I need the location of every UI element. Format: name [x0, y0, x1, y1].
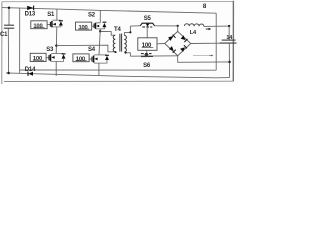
switch S6 — [130, 50, 177, 69]
capacitor C1 — [4, 25, 14, 28]
wire S4 drain lead — [94, 54, 99, 56]
svg-text:100: 100 — [76, 57, 85, 63]
T4 core — [119, 34, 121, 52]
wire bridge right to cap — [191, 42, 220, 44]
bridge diode bottom-right — [180, 45, 187, 52]
wire enclosure bottom edge — [20, 69, 216, 71]
diode S3 body — [51, 54, 65, 62]
transformer T4 — [113, 27, 126, 52]
T4 primary winding — [113, 35, 115, 52]
bridge diode bottom-left — [169, 46, 176, 53]
wire secondary top lead — [124, 26, 130, 35]
svg-text:100: 100 — [33, 56, 42, 62]
wire gate S4 — [89, 58, 91, 60]
svg-text:L4: L4 — [190, 30, 197, 36]
wire S4 source to bottom bus — [98, 63, 100, 76]
inductor L4 — [184, 24, 204, 27]
mosfet S3 — [49, 54, 51, 61]
diode S1 body — [53, 20, 63, 27]
wire S5 gate down to box — [146, 27, 148, 38]
svg-text:D13: D13 — [25, 11, 36, 17]
diode S2 body — [96, 22, 106, 29]
wire S5 to bridge — [155, 25, 178, 27]
junction dot top-left — [8, 7, 11, 10]
junction dot secondary top corner — [129, 31, 131, 33]
diode D13 — [25, 6, 36, 18]
arrow current lower right — [211, 55, 214, 57]
wire enclosure right edge — [215, 13, 217, 70]
wire gate S3 — [46, 57, 49, 59]
T4 secondary winding — [124, 35, 126, 52]
arrow current output top — [206, 28, 212, 30]
gate box 100 S2 — [76, 22, 92, 30]
bridge diode top-right — [181, 35, 188, 42]
wire enclosure left edge — [19, 8, 21, 74]
svg-text:S2: S2 — [88, 12, 96, 18]
wire bridge top stub — [177, 26, 179, 32]
wire node A vertical — [55, 27, 58, 54]
wire gate S1 — [47, 24, 50, 26]
junction dot secondary bottom — [125, 52, 127, 54]
svg-text:100: 100 — [33, 24, 42, 30]
svg-text:S3: S3 — [46, 47, 54, 53]
switch S5 — [130, 16, 177, 38]
svg-text:D14: D14 — [25, 67, 36, 73]
wire output rail lower — [228, 43, 230, 78]
wire S1 drain to bus — [53, 9, 57, 20]
wire top bus — [2, 8, 216, 14]
junction dot node B — [99, 30, 101, 32]
switch cell S2 — [76, 10, 107, 54]
bridge rectifier diamond — [165, 31, 191, 55]
svg-text:C1: C1 — [0, 32, 8, 38]
wire S3 drain lead — [51, 53, 56, 55]
gate box 100 S3 — [30, 53, 46, 61]
svg-text:100: 100 — [142, 43, 152, 49]
gate box 100 S4 — [73, 54, 89, 62]
outer border left — [1, 2, 3, 84]
junction dot bridge top — [177, 25, 179, 27]
junction dot bottom-left — [7, 72, 10, 75]
bridge diode top-left — [168, 35, 175, 41]
junction dot output bottom — [228, 61, 231, 64]
wire primary bottom lead — [56, 45, 115, 52]
switch cell S3 — [30, 44, 65, 76]
wire secondary top rail left part — [130, 25, 140, 27]
junction dot primary bottom — [115, 51, 117, 53]
junction dot node A tap — [55, 44, 57, 46]
wire faint lower right — [193, 55, 208, 57]
gate box 100 S5 S6 — [138, 38, 157, 51]
svg-text:S4: S4 — [88, 47, 96, 53]
capacitor output — [220, 40, 237, 43]
gate box 100 S1 — [31, 21, 47, 29]
wire S3 source to bottom bus — [55, 61, 57, 76]
junction dot output top — [228, 25, 230, 27]
mosfet S5 — [140, 23, 154, 27]
wire secondary bottom lead — [126, 53, 131, 57]
wire bridge bottom down — [178, 56, 230, 63]
switch cell S4 — [73, 47, 109, 76]
wire bridge left stub — [157, 43, 165, 45]
wire node B vertical — [99, 29, 100, 55]
wire output rail upper — [228, 26, 230, 40]
svg-text:S6: S6 — [143, 63, 151, 69]
outer border bottom — [4, 80, 233, 82]
wire S6 rail — [130, 55, 177, 57]
svg-text:S1: S1 — [47, 12, 55, 18]
wire bottom bus — [6, 73, 229, 78]
wire primary top lead — [100, 32, 115, 36]
svg-text:100: 100 — [79, 25, 88, 31]
outer border right — [232, 1, 234, 82]
mosfet S4 — [92, 56, 94, 63]
wire gate S2 — [92, 25, 94, 27]
switch cell S1 — [31, 9, 63, 53]
wire S2 drain to bus — [96, 10, 100, 22]
mosfet S2 — [94, 23, 95, 29]
wire coil to output — [204, 25, 229, 27]
diode S4 body — [94, 55, 109, 63]
mosfet S1 — [50, 21, 52, 27]
svg-text:S5: S5 — [144, 16, 152, 22]
wire S6 gate from box — [146, 50, 148, 53]
outer border top — [2, 0, 234, 2]
diode D14 — [25, 67, 36, 76]
mosfet S6 — [141, 54, 153, 57]
svg-text:T4: T4 — [114, 27, 121, 33]
wire C1 branch — [7, 8, 10, 73]
